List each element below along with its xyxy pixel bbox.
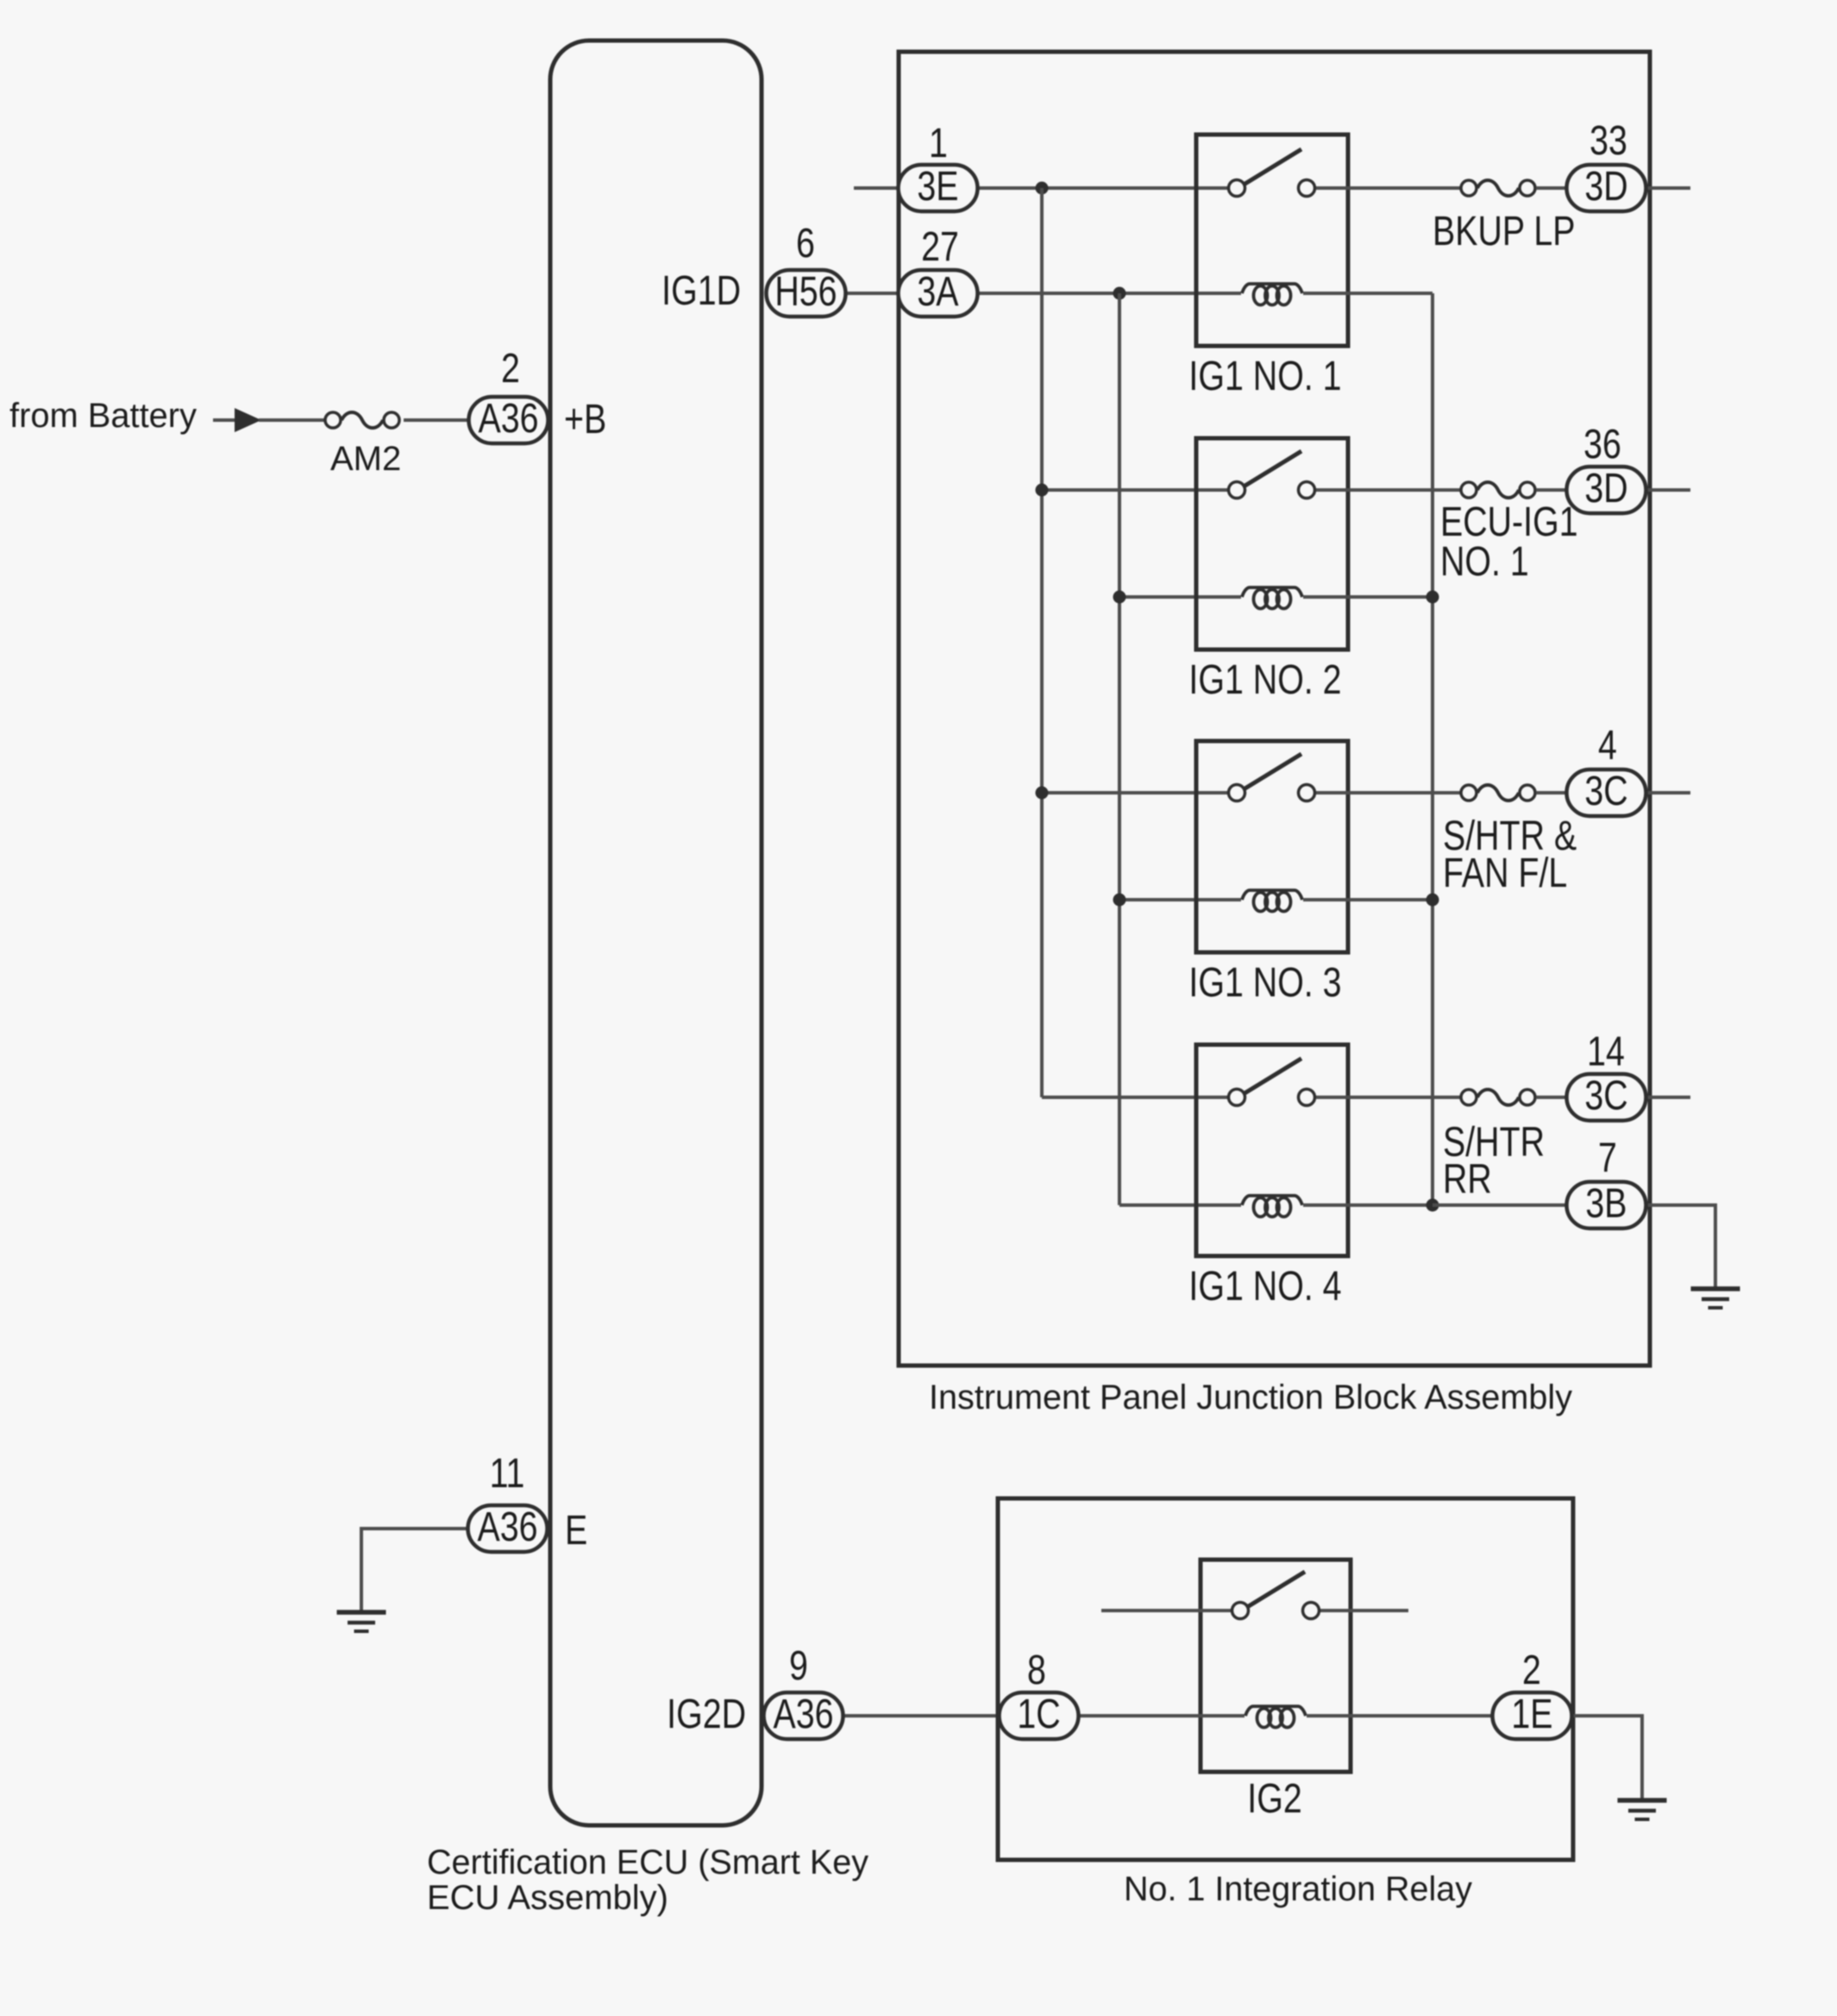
- svg-text:IG1 NO. 4: IG1 NO. 4: [1188, 1263, 1341, 1309]
- wire: H56 to 3A: [811, 292, 899, 295]
- wire: AM2 to A36: [404, 418, 468, 422]
- relay IG1 NO. 3 box: [1196, 741, 1348, 952]
- pin number 2 (1E): [1522, 1647, 1541, 1693]
- svg-text:3C: 3C: [1584, 768, 1627, 814]
- relay IG1 NO. 2 box: [1196, 438, 1348, 650]
- ground (junction block 3B): [1691, 1289, 1740, 1308]
- relay IG1 NO. 4 coil: [1242, 1196, 1302, 1217]
- pin number 9: [789, 1642, 808, 1689]
- svg-text:AM2: AM2: [330, 440, 401, 478]
- connector A36 (+B) pin 2: [469, 395, 549, 443]
- wire: bus to relay IG1 NO.3 coil: [1119, 898, 1241, 901]
- connector 3E pin 1: [899, 163, 978, 211]
- wire: switch bus (3E) vertical: [1040, 188, 1044, 1097]
- node: junction coil return bus relay 2: [1426, 591, 1439, 604]
- node: junction coil bus relay 2: [1113, 591, 1126, 604]
- node: junction coil return bus relay 3: [1426, 894, 1439, 907]
- node: junction switch bus relay 2: [1036, 484, 1049, 497]
- wire: 3C (4) stub right: [1647, 791, 1690, 794]
- wire: 1E to ground: [1573, 1716, 1642, 1799]
- svg-text:BKUP LP: BKUP LP: [1433, 208, 1575, 254]
- wire: relay 4 switch to fuse: [1316, 1096, 1460, 1099]
- svg-text:IG1 NO. 2: IG1 NO. 2: [1188, 656, 1341, 703]
- svg-text:NO. 1: NO. 1: [1440, 538, 1529, 585]
- svg-text:2: 2: [501, 345, 520, 392]
- svg-text:3B: 3B: [1585, 1180, 1627, 1227]
- label: from Battery: [9, 397, 197, 435]
- svg-text:8: 8: [1027, 1647, 1046, 1693]
- wire: stub into 3E: [854, 186, 899, 190]
- label: +B terminal: [564, 396, 606, 443]
- wire: bus to relay IG1 NO.3 switch: [1042, 791, 1228, 794]
- connector H56 pin 6: [767, 268, 846, 317]
- wire: bus to relay IG1 NO.2 coil: [1119, 595, 1241, 599]
- wire: bus to relay IG1 NO.4 coil: [1119, 1203, 1241, 1207]
- fuse BKUP LP: [1461, 180, 1535, 196]
- label: IG2D terminal: [667, 1691, 746, 1737]
- svg-text:E: E: [565, 1507, 587, 1554]
- node: junction on coil bus at 3A: [1113, 287, 1126, 300]
- label: IG1D terminal: [661, 267, 741, 314]
- svg-text:1E: 1E: [1511, 1691, 1552, 1737]
- wire: fuse to 3C (4): [1536, 791, 1568, 794]
- wire: 3D (33) stub right: [1647, 186, 1690, 190]
- Certification ECU (Smart Key ECU Assembly) box: [550, 41, 762, 1825]
- svg-text:RR: RR: [1443, 1156, 1492, 1203]
- pin number 36: [1583, 421, 1621, 468]
- relay IG1 NO. 4 box: [1196, 1045, 1348, 1256]
- wire: IG2 coil to 1E: [1307, 1714, 1491, 1718]
- label: relay IG1 NO. 2: [1188, 656, 1341, 703]
- node: junction switch bus relay 3: [1036, 787, 1049, 800]
- label: relay IG1 NO. 4: [1188, 1263, 1341, 1309]
- svg-text:4: 4: [1598, 722, 1617, 769]
- wire: relay 3 switch to fuse: [1316, 791, 1460, 794]
- wire: IG2 switch left stub: [1101, 1609, 1231, 1612]
- wire: fuse to 3C (14): [1536, 1096, 1568, 1099]
- node: junction on IG1 bus at 3E: [1036, 182, 1049, 195]
- label: relay IG1 NO. 1: [1188, 353, 1341, 399]
- svg-text:A36: A36: [773, 1691, 833, 1737]
- wire: 3A to relay IG1 NO.1 coil: [979, 292, 1241, 295]
- label: Instrument Panel Junction Block Assembly: [929, 1379, 1572, 1416]
- Instrument Panel Junction Block Assembly box: [899, 52, 1650, 1366]
- ground (ECU E terminal): [337, 1612, 386, 1631]
- wire: relay 4 coil to return bus: [1303, 1203, 1433, 1207]
- svg-text:3A: 3A: [917, 268, 959, 315]
- label: Certification ECU name: [427, 1843, 868, 1917]
- wire: bus to relay IG1 NO.2 switch: [1042, 488, 1228, 492]
- relay IG2 switch contact: [1232, 1572, 1320, 1619]
- fuse ECU-IG1 NO. 1: [1461, 482, 1535, 498]
- connector 3C pin 4: [1567, 768, 1646, 816]
- label: fuse S/HTR & FAN F/L: [1443, 813, 1577, 896]
- pin number 6: [796, 220, 815, 267]
- wire: 3C (14) stub right: [1647, 1096, 1690, 1099]
- relay IG2 box: [1201, 1560, 1351, 1772]
- wire: relay 2 coil to return bus: [1303, 595, 1433, 599]
- node: junction coil return bus relay 4: [1426, 1199, 1439, 1212]
- label: fuse BKUP LP: [1433, 208, 1575, 254]
- wire: battery feed with arrow: [213, 408, 324, 432]
- pin number 2: [501, 345, 520, 392]
- No. 1 Integration Relay box: [998, 1498, 1573, 1860]
- wire: IG2 switch right stub: [1320, 1609, 1408, 1612]
- pin number 11: [490, 1450, 525, 1497]
- connector 3D pin 36: [1567, 465, 1646, 513]
- svg-text:IG2: IG2: [1247, 1775, 1301, 1822]
- svg-text:IG1 NO. 3: IG1 NO. 3: [1188, 959, 1341, 1006]
- svg-text:A36: A36: [477, 1504, 537, 1550]
- wire: fuse to 3D (33): [1536, 186, 1568, 190]
- label: relay IG1 NO. 3: [1188, 959, 1341, 1006]
- svg-text:+B: +B: [564, 396, 606, 443]
- wire: relay 1 coil to return bus: [1303, 292, 1433, 295]
- svg-text:FAN F/L: FAN F/L: [1443, 850, 1567, 896]
- svg-text:IG2D: IG2D: [667, 1691, 746, 1737]
- wire: coil return to 3B: [1433, 1203, 1568, 1207]
- pin number 27: [921, 223, 959, 270]
- svg-text:ECU Assembly): ECU Assembly): [427, 1879, 668, 1917]
- relay IG1 NO. 1 box: [1196, 135, 1348, 346]
- pin number 1: [929, 120, 948, 166]
- relay IG2 coil: [1245, 1706, 1306, 1728]
- fuse S/HTR & FAN F/L: [1461, 785, 1535, 801]
- relay IG1 NO. 1 coil: [1242, 284, 1302, 305]
- connector A36 (IG2D) pin 9: [764, 1691, 843, 1739]
- svg-text:Instrument Panel Junction Bloc: Instrument Panel Junction Block Assembly: [929, 1379, 1572, 1416]
- pin number 14: [1587, 1028, 1625, 1075]
- svg-text:No. 1 Integration Relay: No. 1 Integration Relay: [1124, 1870, 1472, 1908]
- svg-text:6: 6: [796, 220, 815, 267]
- svg-text:A36: A36: [478, 395, 538, 442]
- node: junction coil bus relay 3: [1113, 894, 1126, 907]
- connector 1E pin 2: [1493, 1691, 1572, 1739]
- connector 3C pin 14: [1567, 1072, 1646, 1121]
- label: fuse ECU-IG1 NO. 1: [1440, 499, 1578, 585]
- wire: E to ground: [361, 1529, 468, 1611]
- wire: 3E to relay IG1 NO.1 switch: [979, 186, 1228, 190]
- svg-text:2: 2: [1522, 1647, 1541, 1693]
- relay IG1 NO. 3 switch contact: [1229, 754, 1315, 801]
- svg-text:3D: 3D: [1584, 163, 1627, 210]
- svg-text:14: 14: [1587, 1028, 1625, 1075]
- fuse S/HTR RR: [1461, 1090, 1535, 1105]
- label: fuse S/HTR RR: [1443, 1119, 1545, 1203]
- wire: fuse to 3D (36): [1536, 488, 1568, 492]
- svg-text:from Battery: from Battery: [9, 397, 197, 435]
- svg-text:3D: 3D: [1584, 465, 1627, 512]
- relay IG1 NO. 2 coil: [1242, 587, 1302, 609]
- wire: bus to relay IG1 NO.4 switch: [1042, 1096, 1228, 1099]
- wire: relay 3 coil to return bus: [1303, 898, 1433, 901]
- relay IG1 NO. 1 switch contact: [1229, 149, 1315, 197]
- relay IG1 NO. 4 switch contact: [1229, 1058, 1315, 1106]
- connector 3A pin 27: [899, 268, 978, 317]
- connector A36 (E) pin 11: [468, 1504, 548, 1552]
- wire: IG2D to 1C: [811, 1714, 998, 1718]
- svg-text:3E: 3E: [917, 163, 958, 210]
- svg-text:11: 11: [490, 1450, 525, 1497]
- svg-text:Certification ECU (Smart Key: Certification ECU (Smart Key: [427, 1843, 868, 1881]
- wire: relay 1 switch to fuse: [1316, 186, 1460, 190]
- wire corner at relay 4: [0, 0, 1, 1]
- wire: coil bus (3A) vertical: [1118, 293, 1121, 1205]
- connector 3D pin 33: [1567, 163, 1646, 211]
- svg-text:1C: 1C: [1017, 1691, 1060, 1737]
- svg-text:7: 7: [1598, 1134, 1617, 1181]
- label: No. 1 Integration Relay: [1124, 1870, 1472, 1908]
- label: relay IG2: [1247, 1775, 1301, 1822]
- pin number 8: [1027, 1647, 1046, 1693]
- connector 3B pin 7: [1567, 1180, 1646, 1228]
- svg-text:IG1D: IG1D: [661, 267, 741, 314]
- ground (integration relay 1E): [1618, 1800, 1667, 1819]
- svg-text:IG1 NO. 1: IG1 NO. 1: [1188, 353, 1341, 399]
- svg-text:1: 1: [929, 120, 948, 166]
- pin number 7: [1598, 1134, 1617, 1181]
- wire: relay 2 switch to fuse: [1316, 488, 1460, 492]
- svg-text:9: 9: [789, 1642, 808, 1689]
- fuse AM2: [325, 412, 399, 428]
- pin number 4: [1598, 722, 1617, 769]
- wire: 1C to IG2 coil: [1080, 1714, 1245, 1718]
- svg-text:33: 33: [1589, 117, 1627, 164]
- label: fuse AM2: [330, 440, 401, 478]
- label: E terminal: [565, 1507, 587, 1554]
- svg-text:36: 36: [1583, 421, 1621, 468]
- svg-text:27: 27: [921, 223, 959, 270]
- pin number 33: [1589, 117, 1627, 164]
- connector 1C pin 8: [1000, 1691, 1079, 1739]
- wire: 3D (36) stub right: [1647, 488, 1690, 492]
- wire: 3B to ground: [1647, 1205, 1715, 1287]
- relay IG1 NO. 3 coil: [1242, 890, 1302, 912]
- relay IG1 NO. 2 switch contact: [1229, 451, 1315, 499]
- wire: coil return bus vertical: [1431, 293, 1434, 1205]
- svg-text:3C: 3C: [1584, 1072, 1627, 1119]
- svg-text:H56: H56: [774, 268, 837, 315]
